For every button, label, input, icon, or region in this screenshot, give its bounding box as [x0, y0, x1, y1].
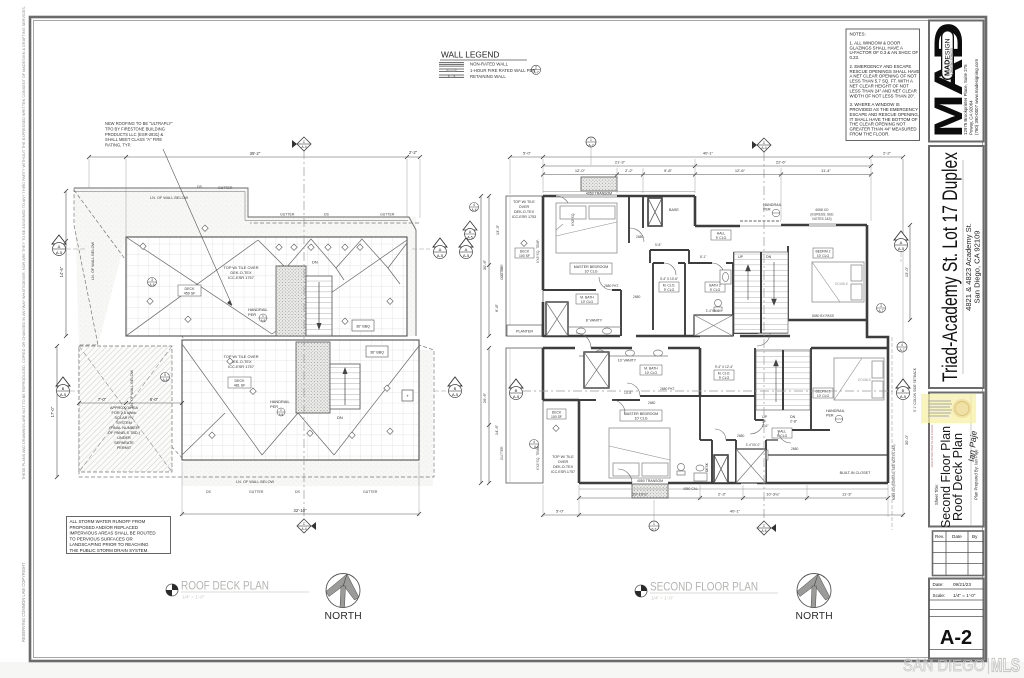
M.BATH label upper — [576, 294, 598, 304]
svg-text:HANDRAIL: HANDRAIL — [826, 409, 845, 413]
svg-text:2: 2 — [535, 66, 537, 70]
svg-text:10' CLG: 10' CLG — [817, 254, 830, 258]
roof deck plan title bubble — [166, 584, 178, 596]
svg-text:481 SF: 481 SF — [234, 384, 246, 388]
M.CLO label lower — [714, 365, 734, 380]
svg-text:GUTTER: GUTTER — [249, 490, 264, 494]
svg-text:BATH 2: BATH 2 — [709, 284, 721, 288]
svg-text:39'-2": 39'-2" — [250, 151, 261, 156]
svg-text:A: A — [900, 240, 903, 245]
svg-text:11'-4": 11'-4" — [821, 168, 831, 173]
roof edge (solid gutter lines) — [74, 188, 416, 336]
detail circle 4/A-6 lower-left — [530, 440, 540, 450]
svg-text:DN: DN — [337, 415, 343, 420]
svg-text:San Diego, CA 92109: San Diego, CA 92109 — [973, 230, 982, 303]
svg-text:Roof Deck Plan: Roof Deck Plan — [950, 433, 965, 521]
svg-text:GUTTER: GUTTER — [500, 446, 504, 460]
svg-text:A-6: A-6 — [472, 208, 477, 212]
svg-text:7'-0": 7'-0" — [98, 397, 107, 402]
svg-text:2'-2": 2'-2" — [883, 151, 892, 156]
bottom dim tier 1 — [577, 492, 890, 501]
svg-text:9'-8": 9'-8" — [664, 168, 673, 173]
svg-text:6068 XO (EGRESS; SEE NOTES 2&3: 6068 XO (EGRESS; SEE NOTES 2&3) — [892, 445, 896, 500]
shower bath2 lower — [736, 443, 766, 483]
svg-text:4050 TRANSOM: 4050 TRANSOM — [637, 479, 663, 483]
svg-text:BASE: BASE — [669, 208, 679, 212]
svg-text:1'-6": 1'-6" — [762, 424, 769, 428]
roof overhang lines — [543, 192, 888, 490]
svg-text:M. BATH: M. BATH — [644, 367, 658, 371]
svg-text:DOUBLE: DOUBLE — [858, 378, 871, 382]
roofing note — [105, 121, 232, 306]
roof vents (diamonds) upper — [140, 225, 393, 324]
svg-text:B: B — [454, 386, 457, 391]
svg-text:NOTES:: NOTES: — [850, 32, 866, 37]
svg-text:(EGRESS; SEE: (EGRESS; SEE — [810, 213, 834, 217]
svg-text:NORTH: NORTH — [796, 611, 833, 622]
svg-text:NON-RATED WALL: NON-RATED WALL — [470, 62, 509, 67]
svg-text:12'-6": 12'-6" — [735, 168, 746, 173]
svg-text:BEDRM 2: BEDRM 2 — [815, 250, 830, 254]
svg-text:459 SF: 459 SF — [184, 292, 196, 296]
HALL label upper — [711, 230, 731, 240]
svg-text:GUTTER: GUTTER — [500, 264, 504, 278]
svg-text:HALL: HALL — [778, 430, 787, 434]
lower deck diamond vent — [553, 425, 559, 431]
svg-text:30'-0": 30'-0" — [904, 434, 909, 445]
svg-text:UNDER: UNDER — [117, 436, 131, 440]
svg-text:+: + — [406, 394, 409, 399]
detail circle 4/A-4 between plans — [463, 203, 479, 240]
svg-text:6-7: 6-7 — [652, 527, 657, 531]
title block: project title box — [929, 146, 984, 388]
svg-text:6068 XO: 6068 XO — [815, 208, 828, 212]
svg-text:17'-0": 17'-0" — [50, 406, 55, 417]
svg-text:9' CLG: 9' CLG — [719, 376, 730, 380]
upper DECK 100 SF box — [515, 248, 534, 258]
svg-text:9' CLG: 9' CLG — [664, 288, 675, 292]
section line B-B (right plan horizontal) — [522, 390, 898, 392]
svg-text:A-7: A-7 — [533, 71, 539, 75]
svg-text:DS: DS — [197, 185, 203, 189]
egress note upper — [810, 208, 834, 221]
stairs lower unit — [756, 350, 810, 424]
svg-text:NEW ROOFING TO BE "ULTRAPLY": NEW ROOFING TO BE "ULTRAPLY" — [105, 121, 173, 126]
vanity/sinks lower unit — [579, 350, 668, 363]
svg-text:10' CLG: 10' CLG — [581, 300, 594, 304]
svg-text:Date: Date — [952, 534, 962, 539]
right vertical dims right plan — [904, 223, 917, 445]
svg-text:10' CLG: 10' CLG — [645, 371, 658, 375]
section marker A/A-5 right pair — [433, 238, 447, 259]
svg-text:A: A — [439, 247, 442, 252]
marker circle 1/A-7 top — [586, 137, 596, 165]
svg-text:ICC-ESR 1757: ICC-ESR 1757 — [228, 364, 254, 369]
toilet + fixtures bath2 upper — [714, 270, 731, 311]
svg-text:32'-10": 32'-10" — [294, 508, 308, 513]
svg-text:LN. OF WALL BELOW: LN. OF WALL BELOW — [150, 196, 189, 200]
svg-text:BUILT-IN CLOSET: BUILT-IN CLOSET — [840, 471, 871, 475]
roof vents (diamonds) lower — [82, 358, 393, 444]
toilet + sink bath2 lower — [677, 464, 707, 482]
upper deck strip (left) — [506, 196, 543, 336]
svg-text:GUTTER: GUTTER — [380, 213, 395, 217]
svg-text:ALL STORM WATER RUNOFF FROM: ALL STORM WATER RUNOFF FROM — [70, 519, 146, 524]
bed master (upper unit) — [556, 203, 617, 253]
svg-text:1: 1 — [590, 138, 592, 142]
svg-text:2'-2": 2'-2" — [625, 168, 634, 173]
upper deck hip/valley lines — [126, 237, 407, 336]
svg-text:LN. OF WALL BELOW: LN. OF WALL BELOW — [236, 480, 275, 484]
svg-text:DS: DS — [206, 490, 212, 494]
sheet title rotated text — [930, 425, 979, 528]
svg-text:10' VANITY: 10' VANITY — [618, 359, 637, 363]
svg-text:09/21/23: 09/21/23 — [953, 582, 971, 587]
svg-text:8'-1": 8'-1" — [700, 255, 707, 259]
svg-text:OF PANELS TBD.): OF PANELS TBD.) — [108, 431, 141, 435]
upper deck label box DECK 459 SF — [178, 285, 201, 296]
svg-text:A-6: A-6 — [534, 445, 539, 449]
svg-text:PER: PER — [270, 404, 278, 409]
handrail note lower — [826, 409, 845, 423]
lower stairs treads — [330, 364, 360, 420]
svg-text:FROM THE FLOOR.: FROM THE FLOOR. — [850, 132, 890, 137]
svg-text:A-7: A-7 — [900, 348, 905, 352]
svg-text:TOP W/ TILE: TOP W/ TILE — [513, 200, 535, 204]
left dimension 14'-6" — [59, 189, 68, 338]
svg-text:LN. OF WALL BELOW: LN. OF WALL BELOW — [130, 369, 134, 408]
svg-text:2680 PKT.: 2680 PKT. — [660, 387, 675, 391]
section marker A/A-5 (right plan, right side) — [894, 231, 908, 262]
svg-text:10' CLG: 10' CLG — [634, 417, 647, 421]
logo address lines — [963, 59, 979, 135]
svg-text:3: 3 — [880, 304, 882, 308]
svg-text:B: B — [515, 388, 518, 393]
svg-text:5: 5 — [164, 373, 166, 377]
svg-text:A-6: A-6 — [150, 283, 155, 287]
door arcs lower unit — [576, 333, 791, 483]
svg-text:TOP W/ TILE: TOP W/ TILE — [552, 455, 574, 459]
svg-text:A-7: A-7 — [588, 143, 593, 147]
svg-text:9' CLG: 9' CLG — [710, 288, 721, 292]
svg-text:PROPOSED AND/OR REPLACED: PROPOSED AND/OR REPLACED — [70, 525, 139, 530]
svg-text:PLANTER: PLANTER — [516, 330, 533, 334]
svg-text:PER: PER — [248, 312, 256, 317]
svg-text:4: 4 — [473, 203, 475, 207]
svg-text:9' CLG: 9' CLG — [716, 236, 727, 240]
svg-text:PRODUCTS LLC (ESR-2831) &: PRODUCTS LLC (ESR-2831) & — [105, 132, 164, 137]
svg-text:6'X8"SQ. TEMP.: 6'X8"SQ. TEMP. — [536, 446, 540, 470]
elevator shaft lower — [714, 455, 728, 483]
svg-text:FOR 2.5 kWdc: FOR 2.5 kWdc — [112, 411, 137, 415]
svg-text:A: A — [58, 244, 61, 249]
svg-text:THE PUBLIC STORM DRAIN SYSTEM.: THE PUBLIC STORM DRAIN SYSTEM. — [70, 548, 149, 553]
svg-text:8'-0": 8'-0" — [150, 397, 159, 402]
second floor plan title — [650, 582, 778, 601]
svg-text:1/4" = 1'-0": 1/4" = 1'-0" — [651, 596, 674, 601]
svg-text:PER: PER — [826, 414, 834, 418]
svg-text:SYSTEM: SYSTEM — [116, 421, 132, 425]
DS / GUTTER labels upper — [197, 185, 395, 217]
bottom dimension 32'-10" — [180, 462, 421, 516]
svg-text:5' 1" COLON SIDE SETBACK: 5' 1" COLON SIDE SETBACK — [913, 367, 917, 412]
svg-text:21'-3": 21'-3" — [615, 160, 626, 165]
svg-text:WALL LEGEND: WALL LEGEND — [441, 50, 499, 60]
MAD logo — [927, 23, 971, 138]
svg-text:RATING, TYP.: RATING, TYP. — [105, 143, 131, 148]
svg-text:DECK: DECK — [520, 250, 530, 254]
balcony rail (upper, dashed) — [740, 221, 781, 226]
svg-text:DN: DN — [312, 260, 318, 265]
svg-text:GUTTER: GUTTER — [218, 186, 233, 190]
svg-text:UP: UP — [738, 255, 744, 259]
svg-text:DN: DN — [766, 255, 772, 259]
svg-text:4: 4 — [901, 343, 903, 347]
svg-text:U-FACTOR OF 0.3 & AN SHGC OF: U-FACTOR OF 0.3 & AN SHGC OF — [850, 50, 919, 55]
svg-text:13'-3": 13'-3" — [495, 224, 500, 235]
svg-text:LANDSCAPING PRIOR TO REACHING: LANDSCAPING PRIOR TO REACHING — [70, 542, 150, 547]
left vertical dims right plan — [479, 194, 504, 485]
svg-text:BEDRM 2: BEDRM 2 — [815, 390, 830, 394]
svg-text:13'-0": 13'-0" — [904, 266, 909, 277]
svg-text:2'-2": 2'-2" — [409, 150, 418, 155]
svg-text:1/4" = 1'-0": 1/4" = 1'-0" — [953, 593, 976, 598]
svg-text:M. BATH: M. BATH — [580, 296, 594, 300]
svg-text:2680: 2680 — [648, 401, 656, 405]
svg-text:A-5: A-5 — [898, 246, 905, 251]
shaded transom (lower unit) — [632, 479, 668, 498]
svg-text:3'-4"X5'-0": 3'-4"X5'-0" — [746, 443, 761, 447]
roof stipple band (top + left wedge) — [74, 188, 433, 486]
svg-text:B: B — [62, 386, 65, 391]
title block: date/scale/sheet-number box — [929, 579, 984, 659]
window sills upper — [556, 195, 836, 226]
svg-text:SHALL MEET CLASS "A" FIRE: SHALL MEET CLASS "A" FIRE — [105, 137, 162, 142]
svg-text:2680 PKT.: 2680 PKT. — [604, 284, 619, 288]
svg-text:(FINAL NUMBER: (FINAL NUMBER — [109, 426, 139, 430]
top dim tier 3 — [541, 168, 873, 177]
svg-text:A-7: A-7 — [879, 309, 884, 313]
svg-text:M. CLO.: M. CLO. — [663, 284, 676, 288]
svg-text:DECK: DECK — [552, 411, 562, 415]
lower stairs stipple — [296, 342, 330, 413]
lower handrail note — [270, 399, 291, 416]
svg-text:Rev.: Rev. — [935, 534, 944, 539]
lower deck label box DECK 481 SF — [228, 377, 251, 388]
upper stairs stipple — [276, 266, 306, 336]
svg-text:A-5: A-5 — [56, 250, 63, 255]
svg-text:OVER: OVER — [519, 205, 530, 209]
svg-text:A-5: A-5 — [513, 394, 520, 399]
top dim tier 2 — [541, 160, 873, 169]
small dims 7'-0" / 8'-0" — [77, 397, 184, 405]
svg-text:8080 BY-PASS: 8080 BY-PASS — [812, 314, 835, 318]
svg-text:A-6: A-6 — [163, 378, 168, 382]
svg-text:4: 4 — [533, 440, 535, 444]
svg-text:GUTTER: GUTTER — [280, 213, 295, 217]
section marker B/A-5 right lower — [434, 377, 462, 398]
svg-text:1/4" = 1'-0": 1/4" = 1'-0" — [182, 595, 205, 600]
left margin copyright text (rotated) — [21, 6, 26, 642]
svg-text:IMPERVIOUS AREAS SHALL BE ROUT: IMPERVIOUS AREAS SHALL BE ROUTED — [70, 531, 156, 536]
section marker C/A-4 bottom — [297, 519, 316, 533]
svg-text:WIDTH OF NOT LESS THAN 20".: WIDTH OF NOT LESS THAN 20". — [850, 93, 916, 98]
svg-text:DEK-O-TEX: DEK-O-TEX — [553, 465, 574, 469]
M.BATH label lower — [640, 365, 662, 375]
svg-text:DN: DN — [790, 415, 796, 419]
section marker C/A-4 top (right plan) — [752, 138, 771, 152]
lower deck tile note — [223, 354, 258, 369]
svg-text:100 SF: 100 SF — [519, 254, 530, 258]
svg-text:1-HOUR FIRE RATED WALL PER: 1-HOUR FIRE RATED WALL PER — [470, 68, 536, 73]
svg-text:MASTER BEDROOM: MASTER BEDROOM — [574, 265, 609, 269]
svg-text:ADJUSTED PER PLAN CHECK: ADJUSTED PER PLAN CHECK — [930, 425, 934, 468]
svg-text:3'-4" X 10'-6": 3'-4" X 10'-6" — [660, 277, 678, 281]
svg-text:ICC-ESR 1753: ICC-ESR 1753 — [512, 215, 536, 219]
roof deck plan title — [181, 581, 309, 600]
svg-text:10'-3¾": 10'-3¾" — [766, 492, 780, 497]
svg-text:2680: 2680 — [636, 235, 644, 239]
svg-text:30'-6": 30'-6" — [482, 259, 487, 270]
left dimension 17'-0" — [50, 344, 59, 479]
title block: revision table — [933, 531, 984, 576]
svg-text:A-5: A-5 — [437, 253, 444, 258]
lower DECK 100 SF box — [547, 409, 566, 419]
svg-text:3: 3 — [151, 278, 153, 282]
title block: logo box — [929, 21, 984, 142]
shaded transom (upper unit) — [581, 177, 617, 196]
yellow highlighter + seal annotation — [921, 394, 976, 423]
svg-text:MASTER BEDROOM: MASTER BEDROOM — [624, 412, 659, 416]
upper stairs treads — [306, 260, 332, 337]
svg-text:10' CLG: 10' CLG — [584, 270, 597, 274]
svg-text:4050 CAL.: 4050 CAL. — [683, 487, 699, 491]
svg-text:DS: DS — [324, 213, 330, 217]
svg-text:DESK: DESK — [705, 462, 709, 472]
svg-text:DEK-O-TEX: DEK-O-TEX — [514, 210, 535, 214]
svg-text:ICC-ESR 1757: ICC-ESR 1757 — [228, 275, 254, 280]
svg-text:DECK: DECK — [185, 287, 196, 291]
svg-text:A-8: A-8 — [261, 318, 266, 322]
section marker B/A-5 left lower — [56, 377, 79, 398]
section marker 4/A-7 (right side lower) — [892, 337, 907, 530]
north arrow (right) — [796, 574, 833, 623]
svg-text:36" BBQ: 36" BBQ — [370, 351, 384, 355]
svg-text:A-5: A-5 — [900, 394, 907, 399]
detail circle 3/A-6 upper — [148, 278, 157, 288]
shower lower (master bath) — [584, 352, 609, 388]
svg-text:A: A — [465, 247, 468, 252]
section marker B/A-5 (right plan right) — [896, 379, 910, 400]
dim labels small upper — [571, 213, 707, 299]
planter box — [507, 325, 542, 336]
svg-text:6'X8"SQ. TEMP.: 6'X8"SQ. TEMP. — [536, 239, 540, 263]
BATH 2 label lower — [748, 450, 768, 460]
svg-text:DOUBLE: DOUBLE — [835, 282, 848, 286]
svg-text:SECOND FLOOR PLAN: SECOND FLOOR PLAN — [650, 582, 758, 594]
36" BBQ box lower — [366, 346, 388, 357]
svg-text:14'-6": 14'-6" — [59, 266, 64, 277]
svg-text:A-4: A-4 — [301, 527, 306, 531]
upper deck — [126, 237, 407, 336]
shower bath2 upper — [694, 309, 733, 336]
svg-text:19'-10¾": 19'-10¾" — [632, 492, 648, 497]
svg-text:12'-0": 12'-0" — [575, 168, 586, 173]
elevator shaft upper — [648, 198, 662, 226]
svg-text:40'-1": 40'-1" — [703, 151, 714, 156]
svg-text:SEPARATE: SEPARATE — [114, 441, 134, 445]
svg-text:14'-6": 14'-6" — [494, 424, 499, 435]
svg-text:MLS: MLS — [991, 656, 1020, 676]
second floor plan title bubble — [635, 585, 647, 597]
title block: stamp / sheet-title box — [929, 393, 984, 527]
svg-text:A-8: A-8 — [279, 412, 284, 416]
LN OF WALL BELOW labels — [91, 196, 275, 484]
svg-text:2'-8": 2'-8" — [790, 420, 798, 424]
svg-text:10' CLG: 10' CLG — [817, 394, 830, 398]
section marker C/A-4 top — [292, 137, 311, 151]
svg-text:A-5: A-5 — [463, 253, 470, 258]
svg-text:8' VANITY: 8' VANITY — [586, 319, 603, 323]
svg-text:Date:: Date: — [933, 582, 944, 587]
svg-text:PERMIT: PERMIT — [117, 446, 132, 450]
36" BBQ box upper — [352, 320, 374, 331]
svg-text:& DRAFTING SERVICES: & DRAFTING SERVICES — [951, 48, 954, 76]
svg-text:By: By — [972, 534, 978, 539]
svg-text:0.23.: 0.23. — [850, 55, 860, 60]
svg-text:B: B — [902, 388, 905, 393]
svg-text:A-4: A-4 — [301, 145, 306, 149]
svg-text:RETAINING WALL: RETAINING WALL — [470, 74, 506, 79]
interior walls lower unit — [579, 348, 888, 483]
upper deck strip labels — [512, 200, 536, 219]
svg-text:HALL: HALL — [717, 232, 726, 236]
svg-text:5'-0": 5'-0" — [556, 509, 565, 514]
top dimension line 39'-2" — [87, 150, 422, 238]
svg-text:Scale:: Scale: — [933, 593, 946, 598]
HALL label lower — [772, 428, 792, 438]
svg-text:12975 Brookprinter Place, Suit: 12975 Brookprinter Place, Suite 275 — [963, 64, 968, 135]
detail circle 5/A-6 left plan — [161, 373, 170, 383]
svg-text:DS: DS — [295, 490, 301, 494]
svg-text:(760) 390-0007 www.madesigni: (760) 390-0007 www.madesigning.com — [974, 59, 979, 135]
lower deck — [182, 340, 419, 460]
dashed line of wall below — [74, 188, 434, 477]
svg-text:5'-8": 5'-8" — [655, 243, 662, 247]
bed 2 (upper unit) — [812, 262, 864, 302]
svg-text:GUTTER: GUTTER — [363, 490, 378, 494]
top dim tier 1 — [508, 151, 905, 160]
svg-text:A-5: A-5 — [467, 235, 472, 239]
solar PV hatched area — [79, 346, 172, 472]
north arrow (left) — [325, 574, 362, 623]
DS / GUTTER labels lower — [206, 490, 378, 494]
svg-text:HANDRAIL: HANDRAIL — [763, 203, 782, 207]
interior walls upper unit — [543, 196, 788, 336]
svg-text:2680: 2680 — [633, 295, 641, 299]
SAN DIEGO MLS watermark — [903, 655, 1020, 676]
small dim labels lower — [624, 387, 799, 491]
upper deck diamond vent — [521, 240, 527, 246]
svg-text:2'-3": 2'-3" — [718, 492, 727, 497]
section marker C/A-6 bottom (right plan) — [757, 521, 776, 535]
svg-text:Triad-Academy St. Lot 17 Duple: Triad-Academy St. Lot 17 Duplex — [939, 152, 962, 382]
svg-text:6'X8"SQ.: 6'X8"SQ. — [571, 213, 575, 226]
master bedroom label — [570, 263, 612, 274]
svg-text:40'-1": 40'-1" — [730, 509, 741, 514]
lower deck strip (left) — [506, 348, 543, 483]
BEDRM 2 lower label + bed — [813, 388, 833, 398]
